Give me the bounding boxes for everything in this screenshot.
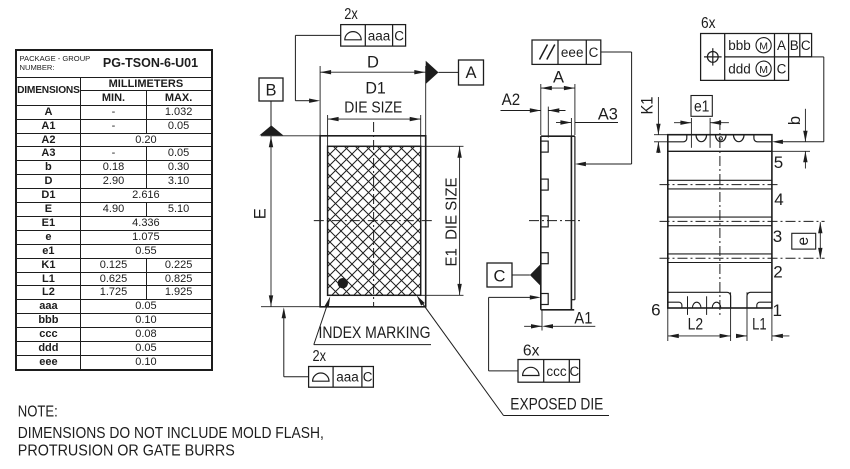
svg-text:EXPOSED DIE: EXPOSED DIE (510, 395, 603, 414)
svg-text:INDEX MARKING: INDEX MARKING (319, 323, 431, 342)
FCF parallel eee C (532, 40, 601, 64)
dimensions table (15, 49, 213, 371)
dimension E1 DIE SIZE (421, 145, 464, 147)
pad tick lines (687, 296, 689, 315)
svg-text:A1: A1 (574, 310, 592, 328)
svg-text:E1 DIE SIZE: E1 DIE SIZE (443, 178, 460, 267)
lead notch semicircle (696, 135, 707, 142)
svg-text:A: A (777, 38, 786, 53)
index marking dot (338, 278, 348, 288)
top view horizontal centerline (314, 220, 433, 222)
svg-text:4: 4 (774, 190, 783, 209)
dimension E (261, 306, 321, 308)
svg-text:aaa: aaa (336, 369, 359, 384)
svg-text:C: C (394, 28, 404, 43)
dimension e (792, 233, 816, 249)
svg-text:E: E (251, 208, 269, 219)
svg-text:6x: 6x (701, 15, 716, 32)
svg-text:ddd: ddd (728, 62, 751, 77)
side view backside (exposed pad) line (574, 136, 576, 300)
datum A box (459, 60, 484, 85)
svg-text:D: D (367, 54, 379, 72)
datum A flag (426, 61, 439, 84)
svg-text:C: C (589, 45, 599, 60)
svg-text:NOTE:: NOTE: (18, 404, 58, 421)
svg-text:A: A (553, 69, 564, 87)
dimension D1 / DIE SIZE (327, 115, 329, 146)
lead notch semicircle (715, 135, 726, 142)
right corner notch (754, 135, 772, 142)
leader FCF ccc (489, 370, 518, 372)
svg-text:6x: 6x (523, 343, 540, 360)
side view leads (541, 141, 548, 152)
dimension L1 (746, 292, 748, 341)
svg-text:2: 2 (773, 263, 782, 282)
svg-text:C: C (801, 38, 811, 53)
svg-text:b: b (786, 116, 804, 125)
svg-text:C: C (363, 369, 373, 384)
svg-text:e: e (795, 237, 812, 246)
svg-text:bbb: bbb (728, 38, 751, 53)
svg-text:eee: eee (561, 45, 584, 60)
bottom view package outline (668, 135, 772, 308)
notch center dot (719, 137, 722, 140)
leader FCF aaa bottom (284, 376, 309, 378)
bottom view vertical centerline (719, 120, 721, 316)
FCF aaa bottom (profile aaa C) (309, 367, 374, 388)
datum C box (487, 263, 512, 287)
svg-text:A3: A3 (598, 106, 618, 124)
dimension A1 (541, 310, 543, 331)
datum B flag (259, 125, 283, 135)
index marking leader (314, 302, 329, 345)
FCF aaa top (profile aaa C) (341, 25, 406, 46)
parallelism symbol (540, 45, 548, 60)
dimension A (540, 84, 542, 135)
svg-text:2x: 2x (313, 348, 327, 365)
top view package outline (320, 136, 426, 307)
lead notch semicircle (733, 135, 744, 142)
dimension A2 (547, 107, 549, 138)
svg-text:C: C (570, 364, 580, 379)
svg-text:L1: L1 (752, 316, 767, 334)
datum C flag (530, 264, 541, 286)
dimension A3 (570, 118, 572, 136)
svg-text:5: 5 (774, 153, 783, 172)
svg-text:2x: 2x (344, 6, 358, 23)
pad bumps (692, 302, 701, 308)
pin 6 pad (668, 292, 731, 308)
FCF ccc (profile ccc C) (518, 360, 580, 383)
svg-text:D1: D1 (365, 80, 386, 98)
svg-text:e1: e1 (694, 99, 710, 116)
position symbol (707, 52, 718, 63)
svg-text:PROTRUSION OR GATE BURRS: PROTRUSION OR GATE BURRS (18, 442, 235, 459)
FCF position bbb ddd (701, 34, 812, 81)
side view centerline (529, 220, 582, 222)
svg-text:M: M (759, 40, 768, 52)
leader FCF position (812, 56, 824, 58)
svg-text:A: A (465, 64, 476, 82)
dimension e1 (691, 96, 712, 117)
top edge extension to datum B (261, 135, 320, 137)
svg-text:M: M (759, 64, 768, 76)
left corner notch (668, 135, 687, 142)
dimension L2 (667, 308, 669, 341)
svg-text:6: 6 (651, 301, 660, 320)
svg-text:A2: A2 (502, 91, 521, 109)
side view body (540, 136, 542, 310)
leader FCF aaa top (295, 34, 340, 36)
svg-text:DIMENSIONS DO NOT INCLUDE MOLD: DIMENSIONS DO NOT INCLUDE MOLD FLASH, (18, 425, 324, 442)
datum B box (259, 78, 283, 101)
svg-text:L2: L2 (688, 315, 704, 333)
svg-text:B: B (265, 82, 276, 100)
svg-text:C: C (777, 62, 787, 77)
dimension D (319, 66, 321, 136)
svg-text:1: 1 (772, 301, 781, 320)
EXPOSED DIE leader (419, 299, 503, 415)
svg-text:B: B (790, 38, 799, 53)
top view vertical centerline (373, 122, 375, 306)
bottom view lead-tip line (668, 150, 772, 152)
leader FCF eee (601, 51, 632, 53)
svg-text:3: 3 (773, 227, 782, 246)
svg-text:K1: K1 (639, 97, 657, 115)
pin 1 pad (747, 292, 772, 308)
svg-text:C: C (494, 267, 506, 285)
svg-text:DIE SIZE: DIE SIZE (344, 100, 402, 117)
die crosshatch area (328, 146, 421, 295)
lead band rows (668, 179, 772, 181)
svg-text:ccc: ccc (546, 364, 567, 379)
svg-text:aaa: aaa (368, 28, 391, 43)
